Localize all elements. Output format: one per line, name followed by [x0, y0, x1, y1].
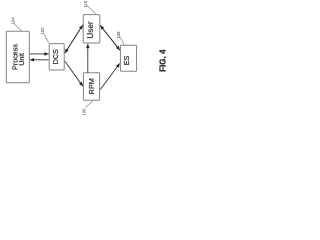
svg-text:Unit: Unit [17, 53, 26, 66]
svg-text:FIG. 4: FIG. 4 [159, 49, 168, 72]
svg-text:108: 108 [116, 31, 121, 39]
svg-text:ES: ES [122, 56, 131, 66]
svg-text:102: 102 [40, 27, 45, 35]
svg-text:User: User [86, 21, 95, 39]
svg-text:106: 106 [82, 108, 87, 116]
svg-text:RPM: RPM [87, 78, 96, 94]
svg-text:DCS: DCS [51, 49, 60, 64]
svg-text:104: 104 [10, 17, 15, 25]
svg-text:110: 110 [83, 0, 88, 7]
